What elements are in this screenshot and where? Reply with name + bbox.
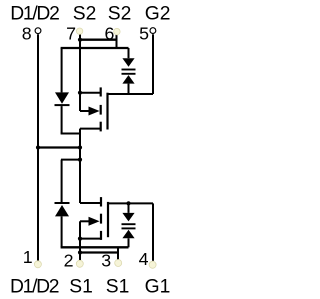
wire pin6 riser (116, 35, 118, 48)
svg-text:S2: S2 (108, 4, 132, 25)
wire Q1 body tie (79, 221, 81, 238)
wire pin5 riser G2 (152, 34, 154, 94)
pin 8 terminal (35, 28, 41, 34)
pin 2 terminal (76, 260, 83, 267)
zener Z2 bars (122, 69, 136, 71)
junction dot S2 line A (78, 38, 82, 42)
wire Q2 drain lead (80, 128, 101, 130)
wire common drain rail vertical (79, 129, 81, 203)
svg-text:2: 2 (64, 251, 74, 271)
junction dot Q2 source (78, 91, 82, 95)
wire line A2 (S1 net lower) (80, 251, 118, 253)
svg-text:8: 8 (22, 24, 32, 44)
svg-text:D1/D2: D1/D2 (10, 4, 60, 25)
diode D2 cathode bar (55, 104, 70, 106)
pin 4 terminal (149, 261, 156, 268)
zener Z1 top triangle (122, 213, 134, 222)
wire top zener upper lead (128, 48, 130, 58)
diode D1 body diode triangle (55, 205, 69, 216)
svg-text:S2: S2 (73, 4, 97, 25)
svg-text:3: 3 (101, 251, 111, 271)
wire pin2 riser (79, 239, 81, 261)
wire Q1 drain lead (80, 202, 101, 204)
pin 1 terminal (34, 261, 41, 268)
wire Q1 body arrow lead (80, 220, 90, 222)
wire G1 gate line (108, 202, 153, 204)
zener Z2 top triangle (122, 58, 134, 66)
wire bottom zener upper lead (128, 203, 130, 213)
wire line B (S2 net lower) (61, 47, 129, 49)
transistor Q1 body arrowhead (89, 217, 100, 226)
zener Z2 bottom triangle (122, 75, 134, 84)
junction dot drain bus (78, 145, 82, 149)
wire line A (S2 net upper) (80, 39, 117, 41)
wire G2 gate line (108, 93, 154, 95)
wire top diode anode lead (61, 48, 63, 92)
svg-text:7: 7 (66, 24, 76, 44)
junction dot diode branch (78, 158, 82, 162)
svg-text:6: 6 (105, 24, 115, 44)
wire Q2 source lead (80, 92, 101, 94)
diode D2 body diode triangle (55, 92, 69, 103)
wire line B2 (S1 net upper) (61, 246, 129, 248)
wire top diode cathode lead (61, 106, 63, 133)
wire Q2 body arrow lead (80, 110, 90, 112)
transistor Q1 channel segments (100, 197, 102, 206)
svg-text:D1/D2: D1/D2 (10, 277, 60, 298)
junction dot Q1 source (78, 237, 82, 241)
wire pin3 riser (117, 247, 119, 259)
wire bottom zener lower lead (128, 238, 130, 247)
pin 5 terminal (150, 28, 156, 34)
junction dot pin8 bus (36, 145, 40, 149)
wire Q2 body tie (79, 93, 81, 111)
wire top diode to drain rail (61, 133, 80, 135)
transistor Q2 channel segments (100, 87, 102, 96)
svg-text:S1: S1 (69, 277, 93, 298)
svg-text:G2: G2 (145, 4, 171, 25)
pin 6 terminal (114, 28, 120, 34)
wire bottom diode anode lead (61, 216, 63, 247)
wire left rail D1/D2 pin8 to pin1 (37, 34, 39, 260)
svg-text:1: 1 (23, 247, 33, 267)
wire top zener lower lead (128, 84, 130, 94)
wire Q1 source lead (80, 238, 101, 240)
diode D1 cathode bar (55, 202, 70, 204)
wire mid horizontal to bottom diode (61, 159, 80, 161)
junction dot G1 zener (126, 201, 130, 205)
pin 7 terminal (76, 28, 82, 34)
transistor Q2 body arrowhead (89, 107, 100, 116)
transistor Q1 gate bar (107, 202, 109, 237)
svg-text:5: 5 (139, 24, 149, 44)
wire pin4 riser G1 (152, 203, 154, 260)
zener Z1 bottom triangle (122, 230, 134, 239)
wire bottom diode cathode lead (61, 160, 63, 202)
svg-text:4: 4 (139, 249, 149, 269)
zener Z1 bars (122, 223, 136, 225)
svg-text:S1: S1 (106, 277, 130, 298)
pin 3 terminal (115, 260, 122, 267)
svg-text:G1: G1 (145, 277, 171, 298)
wire pin7 stem down to Q2 source junction (79, 34, 81, 92)
wire drain bus horizontal (38, 146, 80, 148)
transistor Q2 gate bar (106, 93, 108, 130)
junction dot S1 line A2 (78, 250, 82, 254)
